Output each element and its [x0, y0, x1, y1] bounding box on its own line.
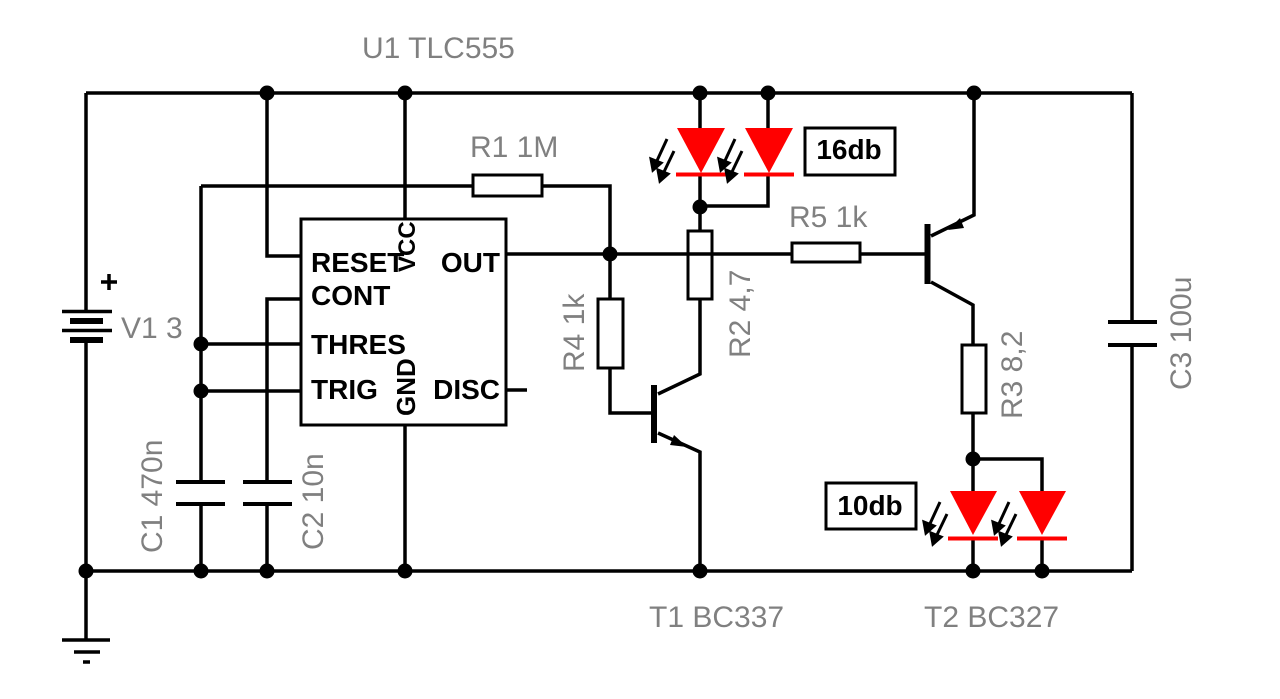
op-amp U1 TLC555 body — [301, 219, 506, 425]
resistor R3 — [962, 345, 986, 413]
resistor R5 — [792, 243, 860, 262]
node top 974 — [967, 86, 982, 101]
label box 10db — [826, 483, 916, 529]
wire thres — [201, 342, 301, 346]
node top 267 — [260, 86, 275, 101]
wire out to R4 — [608, 254, 612, 299]
svg-text:THRES: THRES — [311, 329, 406, 360]
node bottom 267 — [260, 564, 275, 579]
node thres — [194, 337, 209, 352]
capacitor C2 — [243, 482, 292, 504]
wire left rail lower — [84, 343, 88, 640]
wire led3 bottom — [971, 539, 975, 571]
svg-text:TRIG: TRIG — [311, 374, 378, 405]
wire right rail lower — [1130, 345, 1134, 571]
wire out — [506, 252, 792, 256]
svg-text:T2 BC327: T2 BC327 — [924, 601, 1059, 634]
wire disc stub — [506, 388, 527, 392]
node top 700 — [693, 86, 708, 101]
LED D2 arrows — [719, 139, 742, 181]
resistor R2 — [688, 231, 712, 299]
node dots — [79, 86, 1050, 579]
wire led2 bottom — [700, 176, 768, 206]
wire gnd pin — [403, 425, 407, 571]
svg-text:C3 100u: C3 100u — [1165, 277, 1198, 390]
LED D3 arrows — [924, 502, 947, 544]
wire top rail — [86, 91, 1132, 95]
wire C1 bottom — [199, 504, 203, 571]
node bottom 86 — [79, 564, 94, 579]
wire R1 left — [201, 184, 473, 188]
wire led1 bottom — [698, 176, 702, 207]
svg-text:DISC: DISC — [433, 374, 500, 405]
transistor Q1 T1 BC337 — [651, 385, 687, 447]
node bottom 201 — [194, 564, 209, 579]
svg-text:C2 10n: C2 10n — [297, 453, 330, 550]
wire cont branch — [267, 299, 301, 481]
node bottom 700 — [693, 564, 708, 579]
ground — [62, 640, 110, 662]
node trig — [194, 384, 209, 399]
wire bottom rail — [86, 569, 1132, 573]
resistor R1 — [473, 175, 542, 196]
battery V1 — [62, 274, 117, 340]
capacitor C1 — [176, 482, 225, 504]
wire trig — [201, 389, 301, 393]
node bottom 973 — [966, 564, 981, 579]
wire R5 to T2 base — [860, 252, 925, 256]
svg-text:16db: 16db — [816, 134, 881, 165]
LED D2 — [744, 128, 794, 177]
svg-text:OUT: OUT — [441, 247, 500, 278]
resistor R4 — [598, 299, 623, 368]
svg-text:C1 470n: C1 470n — [136, 440, 169, 553]
wire vcc pin — [403, 93, 407, 219]
wire led4 branch — [973, 459, 1042, 491]
wire T1 collector — [658, 299, 700, 394]
wire reset branch — [267, 93, 301, 256]
wire led4 bottom — [1040, 539, 1044, 571]
label box 16db — [805, 128, 895, 175]
wire led3 top — [971, 459, 975, 491]
svg-text:R3 8,2: R3 8,2 — [996, 331, 1029, 419]
svg-text:U1 TLC555: U1 TLC555 — [362, 32, 515, 65]
svg-text:10db: 10db — [837, 490, 902, 521]
wire R3 bottom — [971, 413, 975, 459]
LED D4 — [1017, 491, 1067, 541]
svg-text:R5 1k: R5 1k — [789, 201, 868, 234]
wire led1 top — [698, 93, 702, 128]
wire left rail upper — [84, 93, 88, 311]
node led12 — [693, 200, 708, 215]
wire T2 emitter — [931, 93, 974, 236]
svg-text:V1 3: V1 3 — [121, 312, 183, 345]
node out — [603, 247, 618, 262]
node bottom 1042 — [1035, 564, 1050, 579]
wire C2 bottom — [265, 504, 269, 571]
LED D3 — [948, 491, 998, 541]
wire T2 collector — [931, 282, 973, 345]
svg-text:R4 1k: R4 1k — [558, 293, 591, 372]
node top 768 — [761, 86, 776, 101]
svg-text:R1 1M: R1 1M — [470, 131, 558, 164]
wire right rail upper — [1130, 93, 1134, 322]
capacitor C3 — [1108, 322, 1157, 345]
svg-text:VCC: VCC — [394, 221, 421, 272]
svg-text:RESET: RESET — [311, 247, 404, 278]
wire R1 right — [542, 186, 610, 254]
wire thres-trig vertical — [199, 186, 203, 481]
svg-text:T1 BC337: T1 BC337 — [649, 601, 784, 634]
LED D1 arrows — [651, 139, 674, 181]
transistor Q2 T2 BC327 — [925, 218, 965, 284]
wire R4 to T1 base — [610, 368, 652, 413]
wire T1 emitter — [658, 433, 700, 571]
node bottom 405 — [398, 564, 413, 579]
node led34 — [966, 452, 981, 467]
svg-text:CONT: CONT — [311, 280, 390, 311]
LED D1 — [676, 128, 726, 177]
wire R2 top — [698, 207, 702, 231]
node top 405 — [398, 86, 413, 101]
wire led2 top — [766, 93, 770, 128]
svg-text:GND: GND — [391, 358, 421, 416]
svg-text:R2 4,7: R2 4,7 — [724, 270, 757, 358]
LED D4 arrows — [993, 502, 1016, 544]
